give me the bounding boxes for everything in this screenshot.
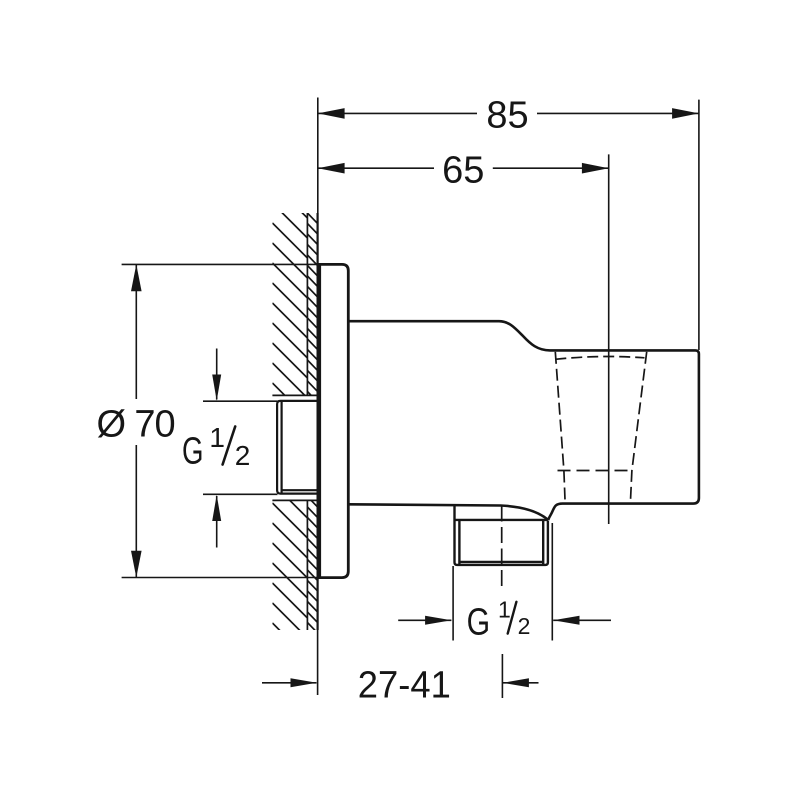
white boxes under text <box>92 399 181 445</box>
wall face line <box>317 213 319 695</box>
spout thread <box>455 505 548 565</box>
hidden cone (dashed) <box>502 352 647 589</box>
svg-text:G: G <box>182 431 204 473</box>
svg-text:85: 85 <box>486 94 528 136</box>
wall band left line <box>306 213 308 630</box>
svg-text:1: 1 <box>209 422 225 453</box>
fraction slashes <box>223 427 517 634</box>
svg-text:2: 2 <box>235 440 251 471</box>
svg-text:2: 2 <box>518 613 531 639</box>
wall hole caps <box>272 395 317 500</box>
svg-text:Ø 70: Ø 70 <box>97 403 175 445</box>
body bottom left + spout shoulder <box>348 504 548 520</box>
svg-text:1: 1 <box>498 597 511 623</box>
G1/2 inlet bushing behind wall <box>277 401 317 494</box>
wall hatching <box>272 183 307 658</box>
svg-text:65: 65 <box>442 149 484 191</box>
thin lines: extension + dimension <box>122 98 699 699</box>
svg-text:27-41: 27-41 <box>358 665 451 707</box>
escutcheon flange <box>320 264 349 577</box>
arrowheads <box>131 108 699 687</box>
body outline top <box>348 321 699 520</box>
svg-text:G: G <box>467 601 491 643</box>
